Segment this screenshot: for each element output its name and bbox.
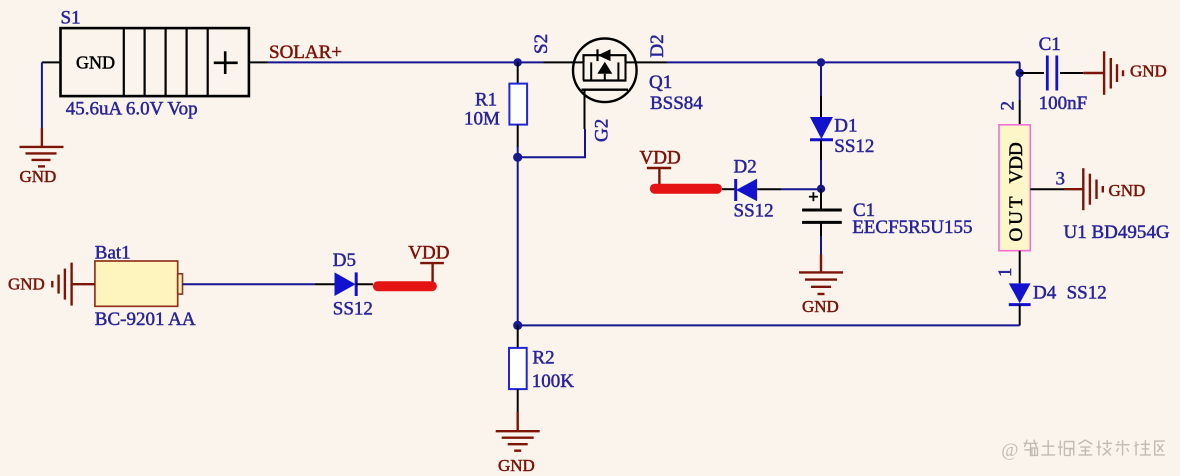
jin	[1078, 440, 1092, 455]
shu	[1116, 440, 1130, 455]
svg-text:3: 3	[1056, 169, 1066, 190]
she	[1134, 440, 1151, 455]
svg-text:VDD: VDD	[1006, 142, 1027, 183]
ground left of Bat1	[8, 263, 95, 306]
svg-text:100K: 100K	[532, 371, 575, 392]
node junction dot D1 branch	[817, 58, 825, 66]
svg-text:GND: GND	[1130, 62, 1167, 81]
watermark	[1001, 440, 1165, 461]
node junction dot D2/C1	[817, 185, 825, 193]
svg-text:D5: D5	[333, 250, 356, 271]
svg-text:G2: G2	[592, 119, 613, 142]
svg-text:D4: D4	[1033, 283, 1057, 304]
svg-text:D2: D2	[647, 34, 668, 57]
svg-text:Q1: Q1	[649, 72, 672, 93]
svg-text:@: @	[1001, 440, 1018, 461]
wire SOLAR+ rail	[268, 61, 544, 63]
node S2 junction dot	[514, 58, 522, 66]
ground right of C1	[1083, 51, 1167, 95]
diode D2 SS12	[736, 179, 781, 202]
svg-text:GND: GND	[802, 297, 839, 316]
svg-text:R1: R1	[475, 89, 497, 110]
wire gate column	[517, 157, 519, 325]
svg-text:GND: GND	[76, 52, 115, 72]
resistor R1	[509, 62, 527, 157]
diode D4 SS12	[1009, 283, 1031, 325]
xi	[1024, 440, 1038, 457]
svg-text:D1: D1	[834, 116, 857, 137]
svg-text:GND: GND	[1109, 181, 1146, 200]
resistor R2	[509, 325, 527, 412]
ground below C1	[799, 255, 843, 317]
wire gate to Q1	[518, 129, 585, 157]
svg-text:C1: C1	[1039, 34, 1061, 55]
svg-text:GND: GND	[8, 275, 45, 294]
svg-text:U1 BD4954G: U1 BD4954G	[1064, 222, 1170, 243]
svg-text:SS12: SS12	[333, 299, 373, 320]
svg-text:EECF5R5U155: EECF5R5U155	[852, 217, 972, 238]
svg-text:1: 1	[995, 268, 1016, 278]
wire S1 to GND	[41, 62, 43, 129]
tu	[1041, 440, 1055, 455]
ground below S1	[20, 128, 64, 186]
svg-text:2: 2	[998, 101, 1019, 111]
jue	[1058, 441, 1074, 456]
svg-text:GND: GND	[498, 456, 535, 475]
qu	[1155, 441, 1165, 455]
capacitor C1 100nF	[1020, 56, 1084, 91]
svg-text:SOLAR+: SOLAR+	[269, 42, 342, 63]
capacitor C1 EECF5R5U155	[802, 189, 842, 236]
ground below R2	[496, 412, 540, 475]
svg-text:GND: GND	[20, 167, 57, 186]
node junction dot gate	[513, 153, 522, 162]
diode D5 SS12	[315, 272, 373, 296]
svg-text:10M: 10M	[464, 109, 500, 130]
svg-text:Bat1: Bat1	[95, 242, 131, 263]
node junction dot bottom rail	[513, 321, 522, 330]
svg-text:BSS84: BSS84	[650, 93, 703, 114]
wire D1 to node	[820, 160, 822, 189]
battery Bat1	[95, 261, 183, 306]
power flag VDD (right)	[373, 243, 450, 292]
svg-text:SS12: SS12	[734, 200, 774, 221]
power flag VDD (left)	[640, 148, 723, 194]
wire C1 to ground	[820, 236, 822, 255]
wire D2 to node	[781, 188, 821, 190]
svg-text:S2: S2	[531, 34, 552, 54]
svg-text:VDD: VDD	[640, 148, 681, 169]
ji	[1097, 440, 1112, 455]
svg-text:VDD: VDD	[408, 243, 449, 264]
svg-text:D2: D2	[734, 156, 757, 177]
transistor Q1 BSS84	[544, 39, 667, 130]
solar cell S1	[42, 28, 268, 96]
svg-text:R2: R2	[532, 348, 554, 369]
svg-text:SS12: SS12	[1067, 283, 1107, 304]
wire bottom rail	[518, 324, 1020, 326]
svg-text:S1: S1	[61, 7, 81, 28]
svg-text:45.6uA 6.0V Vop: 45.6uA 6.0V Vop	[66, 99, 198, 120]
wire VDD bar to D2	[722, 188, 736, 190]
ground at pin 3	[1064, 168, 1145, 210]
diode D1 SS12	[810, 96, 833, 160]
IC U1 BD4954G	[999, 100, 1064, 283]
wire corner down to U1	[1019, 62, 1021, 100]
svg-text:BC-9201 AA: BC-9201 AA	[95, 309, 196, 330]
wire drain to right	[667, 61, 1021, 63]
svg-text:100nF: 100nF	[1039, 93, 1088, 114]
node junction dot top right	[1016, 69, 1024, 77]
svg-text:OUT: OUT	[1006, 193, 1027, 241]
wire D1 branch upper	[820, 62, 822, 96]
svg-text:SS12: SS12	[834, 136, 874, 157]
wire Bat1 to D5	[182, 283, 314, 285]
